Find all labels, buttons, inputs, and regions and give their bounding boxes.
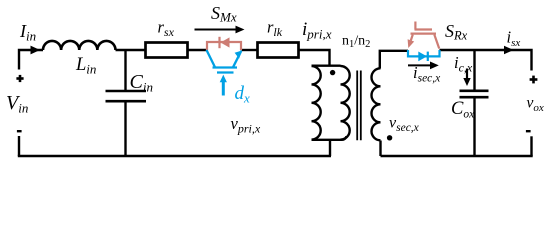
terminal - (output): [526, 130, 531, 132]
svg-text:ipri,x: ipri,x: [302, 19, 332, 42]
svg-text:SRx: SRx: [445, 21, 468, 43]
wire C_in branch upper: [124, 50, 126, 91]
wire C_ox branch lower: [473, 97, 475, 156]
inductor L_in: [43, 41, 115, 50]
wire S_Rx right junction to top-right corner: [440, 50, 532, 71]
svg-text:vox: vox: [527, 95, 544, 115]
wire bottom-right rail: [381, 155, 533, 157]
wire C_in branch lower: [124, 101, 126, 156]
wire secondary top lead to S_Rx left junction: [380, 51, 408, 69]
wire r_lk to transformer primary top lead: [300, 50, 330, 67]
current arrow I_in on wire: [31, 46, 41, 55]
transformer secondary winding: [372, 68, 381, 140]
polarity dot primary: [330, 70, 335, 75]
resistor r_lk: [258, 43, 299, 58]
IGBT emitter arrowhead S_Rx: [408, 39, 415, 48]
annotation arrow under S_Mx: [195, 26, 245, 34]
transformer core: [357, 71, 361, 141]
svg-text:Lin: Lin: [75, 55, 96, 77]
wire S_Mx right junction to r_lk: [242, 49, 258, 51]
switch S_Mx body diode (pink): [207, 37, 241, 50]
svg-text:SMx: SMx: [211, 3, 237, 25]
svg-text:vpri,x: vpri,x: [231, 114, 261, 136]
svg-text:rsx: rsx: [158, 18, 175, 40]
diode triangle S_Mx: [221, 37, 230, 47]
wire top-left corner to inductor: [19, 50, 43, 70]
resistor r_sx: [146, 43, 188, 58]
svg-text:vsec,x: vsec,x: [389, 115, 420, 135]
wire transformer primary bottom lead: [329, 140, 331, 156]
terminal - (input): [17, 130, 22, 132]
current arrow i_sx on wire: [504, 46, 514, 55]
svg-text:Cox: Cox: [451, 99, 475, 121]
capacitor C_ox: [460, 91, 489, 97]
switch S_Mx IGBT (cyan): [207, 50, 242, 73]
wire inductor to r_sx: [116, 49, 146, 51]
wire right rail lower vertical: [530, 136, 532, 156]
gate signal arrow d_x: [220, 75, 227, 96]
IGBT emitter arrowhead S_Mx: [235, 51, 242, 59]
transformer primary winding: [312, 66, 350, 140]
svg-text:n1/n2: n1/n2: [342, 34, 370, 51]
svg-text:Vin: Vin: [6, 92, 28, 116]
terminal + (input): [16, 75, 23, 82]
svg-text:Cin: Cin: [130, 71, 153, 95]
svg-text:dx: dx: [235, 83, 251, 106]
current arrow i_sec,x: [408, 62, 439, 70]
wire bottom-left rail: [18, 155, 331, 157]
switch S_Rx IGBT (pink): [411, 22, 440, 49]
svg-text:ic,x: ic,x: [454, 53, 473, 75]
svg-text:Iin: Iin: [19, 21, 36, 44]
current arrow i_c,x: [463, 69, 470, 87]
wire lower-left vertical: [18, 136, 20, 156]
diode triangle S_Rx: [418, 52, 427, 62]
capacitor C_in: [106, 91, 147, 101]
switch S_Rx diode (cyan): [408, 50, 440, 61]
svg-text:rlk: rlk: [267, 18, 283, 40]
terminal + (output): [530, 76, 538, 84]
wire C_ox branch upper: [473, 50, 475, 91]
wire secondary bottom lead: [379, 141, 381, 157]
polarity dot secondary: [387, 135, 392, 140]
wire r_sx to S_Mx left junction: [189, 49, 207, 51]
svg-text:isx: isx: [507, 28, 521, 50]
